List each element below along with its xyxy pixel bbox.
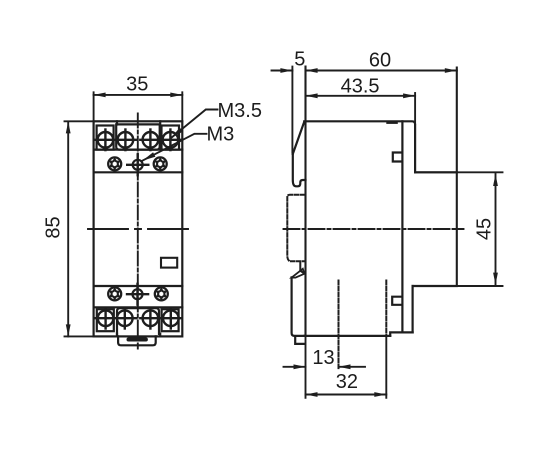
screw cross bar bottom row right pair	[140, 317, 181, 319]
seam stub top right	[159, 121, 161, 124]
front view horizontal seam line upper terminal bottom	[94, 149, 183, 151]
arrow dim 85 top	[66, 121, 71, 133]
lower claw wedge	[292, 269, 305, 278]
hidden clip outline	[287, 195, 304, 262]
svg-text:60: 60	[369, 50, 391, 72]
screw cross bar top row left pair	[95, 139, 136, 141]
svg-text:43.5: 43.5	[341, 76, 380, 98]
arrow leader M3.5	[171, 128, 183, 138]
dim 43.5 line	[306, 95, 416, 97]
side view bottom edge	[304, 335, 390, 337]
side view lower back edge	[412, 286, 414, 332]
dim 35 line	[94, 94, 183, 96]
arrow dim 5	[280, 68, 292, 73]
DIN clip tab bottom	[118, 336, 156, 345]
dim 85 extension bottom	[65, 335, 94, 337]
arrow dim 43.5 right	[403, 93, 415, 98]
dim 13 line right tail	[339, 366, 366, 368]
arrow dim 45 top	[493, 174, 498, 186]
svg-text:85: 85	[43, 216, 65, 238]
terminal square top 1	[97, 126, 114, 150]
bottom claw step	[295, 336, 305, 344]
side view bottom step	[390, 332, 412, 336]
arrow leader M3	[143, 152, 156, 160]
arrow dim 35 right	[170, 93, 182, 98]
arrowheads	[66, 68, 498, 397]
dim 43.5 extension right	[414, 93, 416, 124]
centerline vertical front view	[137, 114, 139, 349]
screw P2 top	[118, 132, 134, 148]
arrow dim 43.5 left	[306, 93, 318, 98]
terminal square bottom 4	[162, 309, 179, 331]
front view horizontal seam line upper body	[94, 171, 183, 173]
clip pocket detail	[300, 263, 304, 274]
side view top edge	[304, 121, 415, 172]
svg-text:M3: M3	[207, 124, 235, 146]
centerline horizontal side view	[284, 228, 464, 230]
terminal square bottom 1	[97, 309, 114, 331]
extension front face below	[305, 336, 307, 398]
screw B3 bottom	[143, 310, 159, 326]
side view front face	[304, 67, 306, 336]
dim 45 line	[495, 174, 497, 285]
svg-text:13: 13	[312, 347, 334, 369]
dim 5 line left tail	[272, 70, 293, 72]
dim 45 extension top	[416, 171, 503, 173]
seam notch lower	[392, 297, 402, 305]
torx screw top left	[108, 157, 121, 170]
centerline horizontal front view	[88, 228, 188, 230]
arrow dim 60 right	[445, 68, 457, 73]
front view body outline	[94, 121, 183, 336]
dim 32 line	[306, 394, 387, 396]
arrow dim 13 left	[294, 364, 306, 369]
front view horizontal seam line lower terminal top	[94, 306, 183, 308]
side view claw extension line (5 dim)	[291, 67, 293, 153]
side view back step top	[415, 171, 457, 173]
svg-text:35: 35	[126, 74, 148, 96]
torx screw bottom right	[155, 287, 168, 300]
side view back step bottom	[413, 285, 457, 287]
hidden line B dashed part (32 dim)	[385, 281, 387, 335]
arrow dim 35 left	[94, 93, 106, 98]
coil screw bottom middle	[133, 289, 143, 299]
seam stub bottom left	[116, 334, 118, 337]
screw B2 bottom	[117, 310, 133, 326]
torx screw top right	[154, 157, 167, 170]
hidden line A (13 dim)	[338, 281, 340, 369]
dim 35 extension right	[181, 92, 183, 121]
dim 13 line left	[284, 366, 306, 368]
side view top chamfer	[293, 122, 305, 154]
screw cross bar bottom row left pair	[95, 317, 136, 319]
screw cross bar top row right pair	[140, 139, 181, 141]
screw B4 bottom	[163, 310, 179, 326]
arrow dim 32 right	[374, 392, 386, 397]
internal seam vertical	[401, 121, 403, 332]
svg-text:45: 45	[474, 218, 496, 240]
side view front claw lower strip	[292, 277, 305, 336]
screw B1 bottom	[98, 310, 114, 326]
dim 45 extension bottom	[413, 285, 503, 287]
screw P1 top	[98, 132, 114, 148]
coil screw top middle M3	[133, 160, 143, 170]
side view front claw upper	[293, 152, 306, 186]
terminal block bottom middle	[117, 308, 159, 334]
dim 60 line	[306, 70, 457, 72]
dim 85 line	[67, 121, 69, 336]
leader M3	[143, 134, 207, 161]
seam stub top left	[116, 121, 118, 124]
arrow dim 85 bottom	[66, 324, 71, 336]
svg-text:M3.5: M3.5	[218, 100, 262, 122]
indicator window	[161, 258, 177, 268]
svg-text:32: 32	[336, 371, 358, 393]
arrow dim 13 right	[339, 364, 351, 369]
dimension texts	[43, 49, 496, 394]
terminal block top middle	[116, 124, 160, 149]
dim 85 extension top	[65, 120, 94, 122]
top latch black mark	[386, 121, 398, 124]
DIN clip slot	[127, 338, 147, 340]
torx screw bottom left	[108, 287, 121, 300]
screw P3 top	[143, 132, 159, 148]
front view horizontal seam line lower body	[94, 285, 183, 287]
leader M3.5	[171, 110, 217, 138]
svg-text:5: 5	[294, 49, 305, 71]
side view back edge	[456, 68, 458, 287]
terminal square top 4	[162, 126, 180, 150]
arrow dim 32 left	[306, 392, 318, 397]
arrow dim 60 left	[306, 68, 318, 73]
dim 35 extension left	[93, 92, 95, 121]
extension line B solid part	[385, 335, 387, 398]
screw P4 top	[163, 132, 179, 148]
seam stub bottom right	[159, 334, 161, 337]
seam notch upper	[393, 153, 403, 162]
arrow dim 45 bottom	[493, 273, 498, 285]
